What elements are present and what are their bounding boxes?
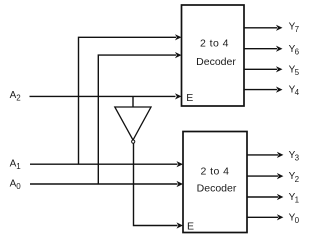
svg-text:E: E bbox=[187, 221, 194, 233]
svg-text:2 to 4: 2 to 4 bbox=[200, 38, 229, 50]
svg-text:1: 1 bbox=[16, 162, 21, 171]
svg-text:0: 0 bbox=[295, 216, 300, 225]
svg-text:7: 7 bbox=[295, 25, 300, 34]
svg-text:6: 6 bbox=[295, 48, 300, 57]
svg-text:2: 2 bbox=[295, 175, 300, 184]
svg-text:1: 1 bbox=[295, 196, 300, 205]
svg-text:Decoder: Decoder bbox=[196, 56, 236, 68]
svg-text:E: E bbox=[186, 92, 193, 104]
svg-text:4: 4 bbox=[295, 88, 300, 97]
svg-text:2 to 4: 2 to 4 bbox=[201, 166, 230, 178]
svg-text:0: 0 bbox=[16, 182, 21, 191]
svg-text:Decoder: Decoder bbox=[197, 182, 237, 194]
svg-text:5: 5 bbox=[295, 68, 300, 77]
svg-text:3: 3 bbox=[295, 154, 300, 163]
svg-text:2: 2 bbox=[16, 93, 21, 102]
